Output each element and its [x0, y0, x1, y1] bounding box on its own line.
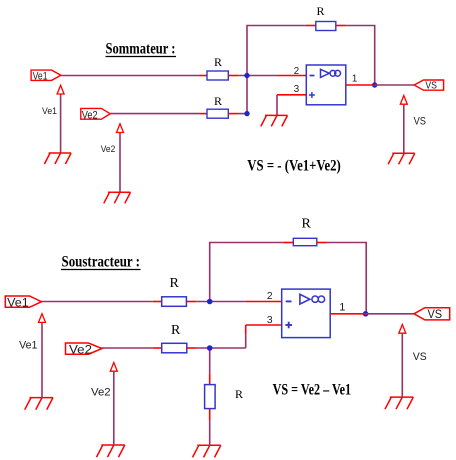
svg-text:Sommateur :: Sommateur : [106, 41, 176, 58]
svg-text:R: R [214, 55, 222, 69]
svg-text:Ve1: Ve1 [33, 70, 48, 82]
svg-text:R: R [171, 323, 181, 338]
svg-text:Soustracteur :: Soustracteur : [62, 254, 141, 271]
svg-text:2: 2 [294, 66, 299, 77]
svg-text:VS = - (Ve1+Ve2): VS = - (Ve1+Ve2) [247, 158, 340, 175]
svg-text:VS: VS [425, 80, 437, 91]
svg-text:2: 2 [267, 291, 273, 302]
svg-text:R: R [170, 276, 180, 291]
svg-text:R: R [214, 94, 222, 108]
svg-text:R: R [235, 387, 243, 401]
svg-text:VS: VS [428, 307, 443, 321]
svg-text:3: 3 [267, 315, 273, 326]
svg-text:Ve2: Ve2 [101, 144, 116, 155]
svg-text:Ve2: Ve2 [69, 342, 92, 356]
svg-text:VS = Ve2 – Ve1: VS = Ve2 – Ve1 [273, 382, 352, 399]
svg-text:Ve1: Ve1 [7, 296, 29, 310]
svg-text:Ve1: Ve1 [42, 106, 57, 117]
svg-text:R: R [302, 217, 312, 232]
svg-text:R: R [317, 4, 325, 18]
svg-text:3: 3 [294, 84, 299, 95]
svg-text:Ve2: Ve2 [91, 387, 111, 399]
svg-text:VS: VS [414, 115, 426, 127]
svg-text:VS: VS [413, 351, 427, 363]
svg-text:1: 1 [352, 74, 357, 85]
svg-text:Ve2: Ve2 [82, 109, 98, 121]
svg-text:Ve1: Ve1 [19, 339, 37, 351]
svg-text:1: 1 [339, 302, 345, 314]
